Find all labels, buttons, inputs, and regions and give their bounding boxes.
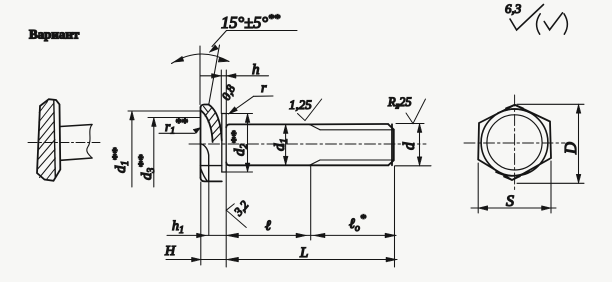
head left face extension line up [199, 46, 201, 105]
dimension 0,8 extension lines up [221, 70, 226, 114]
svg-text:1,25: 1,25 [289, 97, 312, 112]
svg-text:L: L [299, 245, 308, 261]
bolt end face and chamfer [388, 124, 394, 165]
dimension line h1 and l (y=235.4) [167, 233, 396, 238]
outer sphere arc (section boundary) [209, 105, 222, 141]
dimension d3** (vertical dim line left 2) [148, 118, 200, 188]
svg-text:ℓ: ℓ [265, 219, 271, 234]
shank outline [226, 124, 309, 165]
angle arc [172, 54, 230, 64]
extension lines below head [201, 166, 395, 267]
svg-text:h: h [252, 62, 260, 78]
svg-text:D: D [561, 142, 580, 155]
leader r [228, 96, 273, 114]
svg-text:d2**: d2** [228, 130, 250, 156]
arc arrowhead left [174, 56, 184, 62]
thread major lines [310, 124, 389, 165]
svg-text:ℓo*: ℓo* [349, 211, 366, 234]
svg-text:d1: d1 [272, 138, 290, 151]
variant shank stub [60, 125, 92, 161]
svg-text:d1**: d1** [109, 147, 131, 173]
svg-text:S: S [506, 193, 514, 210]
roughness 3,2 on bearing face [226, 204, 246, 228]
inner arc (section boundary) [201, 111, 213, 143]
hexagon [478, 105, 551, 180]
dimension h (top) [201, 74, 269, 79]
hex head end view [478, 105, 551, 180]
dimension S [471, 161, 556, 213]
svg-text:d: d [401, 142, 418, 150]
thread minor lines [320, 130, 394, 160]
dimension d2** (right of head) [227, 114, 253, 173]
dimension d (right end) [395, 124, 431, 166]
variant centerline [28, 142, 100, 144]
leader r1** [159, 128, 200, 134]
head lower half exterior lines [200, 144, 221, 181]
main head outline (hex part, section) [201, 105, 222, 182]
end view centerlines [464, 142, 565, 144]
svg-text:6,3: 6,3 [505, 1, 522, 16]
dimension d1 (shank diameter) [283, 125, 288, 166]
chamfer circle outer [481, 109, 548, 176]
cone extension line [209, 45, 220, 105]
vertex arcs top/bottom [498, 105, 531, 113]
svg-text:15°±5°**: 15°±5°** [221, 11, 280, 32]
dimension line H and L (y=259.5) [166, 257, 397, 262]
svg-text:h1: h1 [172, 219, 184, 236]
collar (bearing washer) [222, 114, 226, 173]
dimension D [517, 104, 584, 183]
thread run-out diagonals [310, 124, 321, 165]
svg-text:H: H [164, 244, 176, 259]
crescent hatching [204, 106, 222, 141]
svg-text:Вариант: Вариант [29, 27, 80, 42]
svg-text:Rz25: Rz25 [387, 95, 412, 111]
svg-text:r: r [261, 81, 267, 96]
variant head hatching [37, 102, 55, 180]
dimension d1** (vertical dim line left) [128, 111, 200, 187]
arc arrowhead right [218, 57, 229, 62]
variant head outline [37, 99, 60, 181]
bolt centerline [189, 143, 426, 145]
inner circle [487, 115, 542, 170]
